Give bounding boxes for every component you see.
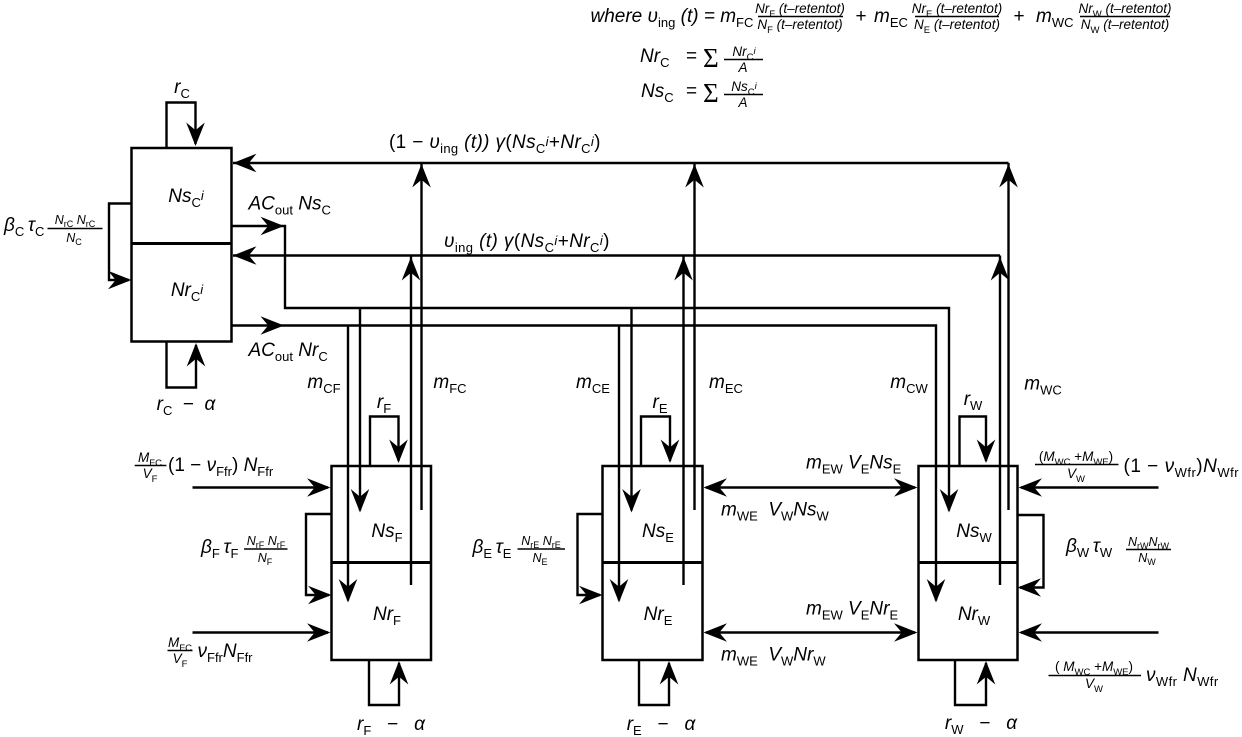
transfer bracket beta_W NsW to NrW (right side): [1018, 515, 1044, 588]
svg-text:mEW VENrE: mEW VENrE: [806, 599, 898, 623]
wire collector (1-ving) into NsCi: [233, 162, 1009, 164]
box C (NsCi / NrCi compartments): [132, 148, 232, 342]
wire ACout NrC output from box C, distributing to NrF/NrE/NrW: [232, 326, 937, 601]
self-loop rW: [960, 417, 987, 467]
wire riser mWC from NsW up to top collector: [1007, 163, 1009, 510]
label beta_C tau_C NrC NrC / NC: [3, 213, 103, 247]
wire drop into NrF: [347, 326, 349, 601]
wire exchange mEW/mWE upper (NsE <-> NsW): [706, 486, 915, 488]
svg-text:Σ: Σ: [703, 78, 719, 108]
label (MWC+MWE)/VW (1-vWfr)NWfr: [1035, 449, 1239, 485]
wire drop into NsE: [630, 308, 632, 511]
box E divider: [603, 561, 703, 564]
svg-text:=: =: [686, 81, 697, 102]
label beta_E tau_E NrE NrE / NE: [472, 534, 566, 567]
svg-text:Σ: Σ: [703, 43, 719, 73]
box F divider: [332, 561, 432, 564]
box E (NsE / NrE): [603, 466, 703, 660]
transfer bracket beta_E NsE to NrE: [578, 514, 603, 595]
self-loop rW-alpha: [955, 660, 986, 705]
self-loop rC-alpha into box C bottom: [167, 342, 197, 388]
wire drop into NrE: [618, 326, 620, 601]
svg-text:+: +: [1013, 6, 1024, 27]
svg-text:mEW VENsE: mEW VENsE: [806, 453, 902, 477]
label (MWC+MWE)/VW vWfr NWfr: [1049, 659, 1219, 695]
wire input (MFC/VF)(1-vFfr)NFfr into NsF: [193, 486, 329, 488]
formula line: where v_ing(t) = m_FC ...: [591, 1, 1172, 36]
self-loop rE: [641, 417, 670, 467]
svg-text:+: +: [855, 6, 866, 27]
box F (NsF / NrF): [332, 466, 432, 660]
wire input (MWC+MWE)/VW vWfr NWfr into NrW: [1021, 631, 1159, 633]
wire riser mEC from NsE up to top collector: [693, 163, 695, 510]
label beta_F tau_F NrF NrF / NF: [200, 534, 288, 567]
formula line: NrC = sum NrCi/A: [640, 43, 763, 75]
box W (NsW / NrW): [919, 466, 1018, 660]
transfer bracket beta_F NsF to NrF: [306, 514, 332, 595]
svg-text:=: =: [686, 46, 697, 67]
wire riser mFC from NsF up to top collector: [420, 163, 422, 510]
self-loop rE-alpha: [639, 660, 669, 705]
wire riser mWC from NrW up to ving collector: [999, 256, 1001, 586]
svg-text:(1 − υing (t)) γ(NsCi+NrCi): (1 − υing (t)) γ(NsCi+NrCi): [389, 132, 601, 156]
transfer bracket beta_C from NsCi to NrCi: [109, 204, 132, 281]
wire drop into NsF: [359, 308, 361, 511]
label MFC/VF (1-vFfr) NFfr: [135, 450, 274, 485]
wire input (MWC+MWE)/VW (1-vWfr)NWfr into NsW: [1021, 486, 1159, 488]
box W divider: [919, 561, 1018, 564]
self-loop rF: [370, 417, 399, 467]
label beta_W tau_W NrW NrW / NW: [1065, 535, 1171, 567]
wire exchange mEW/mWE lower (NrE <-> NrW): [706, 631, 915, 633]
wire riser mFC from NrF up to ving collector: [410, 256, 412, 586]
svg-text:mWE VWNrW: mWE VWNrW: [721, 645, 826, 669]
self-loop rF-alpha: [369, 660, 399, 705]
formula line: NsC = sum NsCi/A: [641, 78, 763, 110]
wire input (MFC/VF)vFfr NFfr into NrF: [193, 631, 329, 633]
svg-text:A: A: [737, 60, 747, 75]
self-loop rC into box C top: [167, 103, 196, 149]
wire ACout NsC output from box C, distributing to NsF/NsE/NsW: [232, 226, 950, 511]
label MFC/VF vFfr NFfr: [168, 635, 254, 670]
wire collector ving into NrCi: [233, 254, 1000, 256]
svg-text:A: A: [737, 95, 747, 110]
wire riser mEC from NrE up to ving collector: [682, 256, 684, 586]
box C divider: [132, 242, 232, 245]
